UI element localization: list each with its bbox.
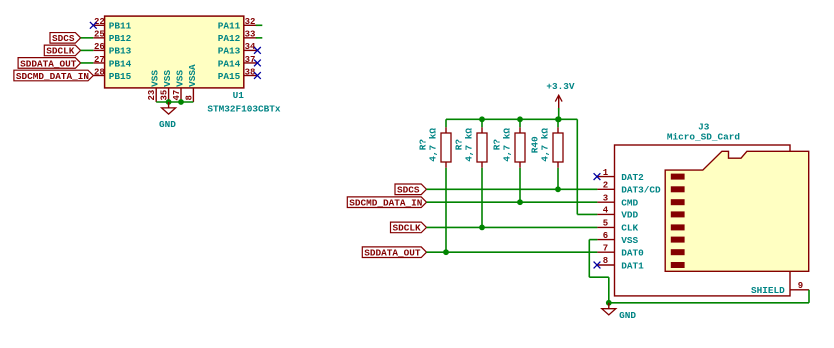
svg-text:27: 27 — [94, 55, 105, 65]
svg-text:4,7 kΩ: 4,7 kΩ — [464, 128, 475, 162]
svg-text:SDCS: SDCS — [397, 185, 420, 196]
svg-text:VSS: VSS — [621, 235, 638, 246]
svg-text:DAT0: DAT0 — [621, 248, 644, 259]
svg-text:25: 25 — [94, 30, 105, 40]
svg-text:CMD: CMD — [621, 198, 638, 209]
svg-text:SHIELD: SHIELD — [751, 285, 785, 296]
svg-text:2: 2 — [603, 181, 608, 191]
svg-text:VSSA: VSSA — [187, 64, 198, 87]
svg-text:VSS: VSS — [162, 70, 173, 87]
svg-text:GND: GND — [619, 310, 636, 321]
svg-text:SDCMD_DATA_IN: SDCMD_DATA_IN — [16, 71, 90, 82]
svg-text:23: 23 — [147, 90, 157, 101]
svg-text:VSS: VSS — [150, 70, 161, 87]
svg-text:6: 6 — [603, 231, 608, 241]
svg-text:SDDATA_OUT: SDDATA_OUT — [20, 58, 77, 69]
svg-text:PA14: PA14 — [218, 58, 241, 69]
svg-text:PA15: PA15 — [218, 71, 241, 82]
svg-text:38: 38 — [245, 67, 256, 77]
svg-text:SDCMD_DATA_IN: SDCMD_DATA_IN — [349, 198, 423, 209]
svg-text:7: 7 — [603, 243, 608, 253]
svg-text:35: 35 — [160, 90, 170, 101]
svg-text:PA11: PA11 — [218, 21, 241, 32]
svg-text:5: 5 — [603, 219, 608, 229]
svg-text:Micro_SD_Card: Micro_SD_Card — [667, 132, 740, 143]
svg-text:SDCLK: SDCLK — [46, 46, 75, 57]
svg-text:VDD: VDD — [621, 210, 638, 221]
svg-text:8: 8 — [603, 256, 608, 266]
svg-text:32: 32 — [245, 17, 256, 27]
svg-text:4,7 kΩ: 4,7 kΩ — [540, 128, 551, 162]
svg-text:26: 26 — [94, 42, 105, 52]
svg-text:8: 8 — [184, 95, 194, 100]
svg-text:9: 9 — [798, 281, 803, 291]
svg-text:3: 3 — [603, 193, 608, 203]
svg-text:SDDATA_OUT: SDDATA_OUT — [364, 248, 421, 259]
svg-text:PB11: PB11 — [109, 21, 132, 32]
svg-text:PB14: PB14 — [109, 58, 132, 69]
svg-text:VSS: VSS — [175, 70, 186, 87]
svg-text:28: 28 — [94, 67, 105, 77]
svg-text:4,7 kΩ: 4,7 kΩ — [428, 128, 439, 162]
svg-text:37: 37 — [245, 55, 256, 65]
svg-text:+3.3V: +3.3V — [546, 81, 575, 92]
svg-text:PB12: PB12 — [109, 33, 132, 44]
svg-text:PA12: PA12 — [218, 33, 241, 44]
svg-text:33: 33 — [245, 30, 256, 40]
svg-text:STM32F103CBTx: STM32F103CBTx — [207, 103, 281, 114]
svg-text:PB13: PB13 — [109, 46, 132, 57]
svg-text:GND: GND — [159, 119, 176, 130]
svg-text:SDCS: SDCS — [52, 33, 75, 44]
svg-text:DAT2: DAT2 — [621, 172, 644, 183]
svg-text:U1: U1 — [233, 90, 245, 101]
svg-text:DAT3/CD: DAT3/CD — [621, 185, 661, 196]
svg-text:4,7 kΩ: 4,7 kΩ — [502, 128, 513, 162]
svg-text:SDCLK: SDCLK — [393, 223, 422, 234]
svg-text:PA13: PA13 — [218, 46, 241, 57]
svg-text:PB15: PB15 — [109, 71, 132, 82]
svg-text:4: 4 — [603, 206, 609, 216]
svg-text:47: 47 — [172, 90, 182, 101]
svg-text:DAT1: DAT1 — [621, 260, 644, 271]
svg-text:CLK: CLK — [621, 223, 638, 234]
svg-text:1: 1 — [603, 168, 609, 178]
